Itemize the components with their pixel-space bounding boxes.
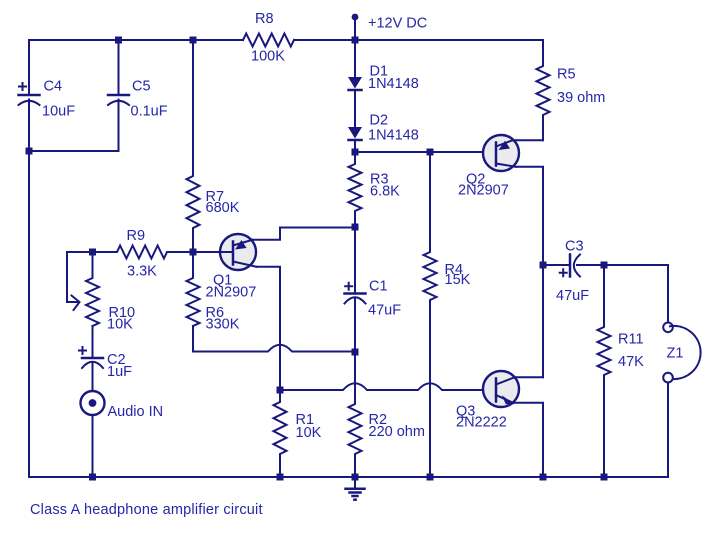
svg-text:2N2907: 2N2907	[206, 285, 257, 301]
svg-text:C3: C3	[565, 239, 584, 255]
svg-text:R5: R5	[557, 67, 576, 83]
resistor R11	[598, 265, 645, 477]
wire top rail right	[294, 39, 543, 41]
svg-text:1uF: 1uF	[107, 364, 132, 380]
resistor R3	[349, 152, 401, 227]
resistor R1	[274, 390, 322, 477]
junction R3 / C1 / Q1 emitter	[352, 224, 359, 231]
wire left rail	[28, 100, 30, 478]
capacitor C5	[29, 40, 168, 151]
svg-text:D2: D2	[370, 113, 389, 129]
junction R4 top	[427, 149, 434, 156]
wire R6 bottom to C1 bottom (hop over Q1 collector)	[193, 326, 355, 352]
wire Q2 emitter to R5	[513, 139, 544, 141]
svg-text:R11: R11	[618, 332, 644, 348]
wire bias node to Q2 base	[355, 151, 496, 153]
resistor R6	[187, 252, 240, 333]
junction R1 / bottom rail	[277, 474, 284, 481]
wire Q1 collector down	[257, 267, 281, 390]
junction C1 bottom	[352, 349, 359, 356]
capacitor C3	[543, 239, 604, 305]
headphone Z1	[663, 323, 700, 383]
ground	[346, 477, 365, 500]
diode D2	[348, 113, 419, 144]
junction R7 / R9 / Q1 base	[190, 249, 197, 256]
wire Q1 emitter to R3/C1 node	[253, 228, 356, 240]
svg-text:Class A headphone amplifier ci: Class A headphone amplifier circuit	[30, 502, 263, 518]
capacitor C4	[19, 40, 76, 151]
wire pot wiper stub	[67, 252, 93, 302]
transistor Q1 2N2907	[206, 234, 257, 301]
diode D1	[348, 40, 419, 92]
svg-text:10K: 10K	[107, 317, 133, 333]
svg-text:330K: 330K	[206, 317, 240, 333]
wire top rail left	[29, 39, 243, 41]
capacitor C1	[345, 227, 402, 352]
wire Q3 collector	[515, 376, 544, 378]
svg-text:100K: 100K	[251, 49, 285, 65]
junction R11 / bottom rail	[601, 474, 608, 481]
svg-text:Z1: Z1	[667, 346, 684, 362]
svg-text:47uF: 47uF	[368, 303, 401, 319]
svg-text:Audio IN: Audio IN	[108, 404, 164, 420]
resistor R5	[537, 40, 606, 140]
junction Q1 collector / R1 / base line	[277, 387, 284, 394]
+12V DC terminal	[352, 14, 428, 40]
capacitor C2	[79, 326, 132, 391]
svg-text:R8: R8	[255, 11, 274, 27]
resistor R10 (pot)	[86, 252, 135, 333]
svg-text:6.8K: 6.8K	[370, 184, 400, 200]
svg-text:15K: 15K	[445, 272, 471, 288]
resistor R7	[187, 40, 240, 252]
pot wiper arrow	[72, 296, 80, 311]
svg-text:0.1uF: 0.1uF	[131, 104, 168, 120]
svg-text:C1: C1	[369, 279, 388, 295]
junction jack / bottom rail	[89, 474, 96, 481]
svg-text:47K: 47K	[618, 354, 644, 370]
svg-text:C5: C5	[132, 79, 151, 95]
svg-text:R9: R9	[127, 228, 146, 244]
wire Q2 collector down right rail	[516, 167, 543, 377]
resistor R9	[93, 228, 194, 280]
resistor R2	[349, 352, 425, 477]
junction node bias	[352, 149, 359, 156]
wire Z1 bottom to rail	[667, 383, 669, 478]
svg-text:680K: 680K	[206, 200, 240, 216]
wire C3 node to Z1	[604, 265, 668, 322]
resistor R4	[424, 152, 471, 477]
wire Q1 base	[193, 251, 233, 253]
wire Q3 emitter to rail	[513, 403, 543, 477]
junction R9 / R10 wiper stub	[89, 249, 96, 256]
svg-text:10K: 10K	[296, 425, 322, 441]
junction Q3 emitter / bottom rail	[540, 474, 547, 481]
junction C3 / R11	[601, 262, 608, 269]
svg-text:1N4148: 1N4148	[368, 76, 419, 92]
svg-text:2N2907: 2N2907	[458, 183, 509, 199]
junction C3 left	[540, 262, 547, 269]
svg-text:47uF: 47uF	[556, 288, 589, 304]
svg-text:C4: C4	[44, 79, 63, 95]
svg-text:3.3K: 3.3K	[127, 264, 157, 280]
wire bottom rail	[29, 476, 668, 478]
wire base line to Q3 (hops over R2 and R4)	[280, 383, 496, 390]
junction R2 / ground	[352, 474, 359, 481]
svg-text:+12V DC: +12V DC	[368, 16, 427, 32]
svg-text:2N2222: 2N2222	[456, 415, 507, 431]
junction R4 / bottom rail	[427, 474, 434, 481]
junction left rail / C5 bottom	[26, 148, 33, 155]
svg-text:39 ohm: 39 ohm	[557, 90, 605, 106]
junction top rail / +12V	[352, 37, 359, 44]
wire D2 to node	[354, 140, 356, 152]
svg-text:1N4148: 1N4148	[368, 128, 419, 144]
transistor Q3 2N2222	[456, 371, 519, 431]
transistor Q2 2N2907	[458, 135, 519, 199]
junction top rail / C5	[115, 37, 122, 44]
svg-text:220 ohm: 220 ohm	[369, 424, 425, 440]
junction top rail / R7	[190, 37, 197, 44]
svg-text:10uF: 10uF	[42, 104, 75, 120]
connector Audio IN jack	[81, 391, 164, 477]
wire D1 to D2	[354, 90, 356, 128]
resistor R8	[243, 11, 294, 65]
